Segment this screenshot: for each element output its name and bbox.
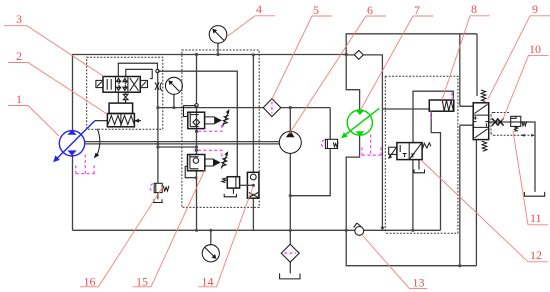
charge pump triangle	[286, 131, 295, 137]
pump P1 outlet triangle up	[67, 130, 76, 135]
valve 15 adjust arrow	[221, 154, 227, 169]
ring node pilot junction	[156, 69, 159, 72]
wire shuttle column	[252, 55, 254, 230]
motor variable arrow	[345, 108, 379, 135]
node T-line valve12	[411, 229, 414, 232]
filter 5 magenta element	[271, 102, 273, 114]
svg-text:3: 3	[16, 12, 22, 26]
valve 12 body	[397, 143, 422, 160]
charge pump 6	[279, 131, 301, 153]
servo spring box 2	[107, 114, 134, 127]
valve 8 spring	[442, 100, 454, 111]
wire valve12 tank stub	[418, 160, 420, 170]
gauge 2	[165, 77, 182, 94]
wire charge pump bottom port	[289, 153, 291, 244]
wire x158 column	[157, 73, 159, 199]
test point W x158	[154, 183, 162, 192]
motor 7 variable motor (green)	[347, 110, 372, 135]
swash link line	[95, 120, 141, 122]
wire valve8 bottom to valve12 right line	[431, 112, 440, 230]
valve 8 pilot box	[429, 100, 454, 111]
orifice under valve 3	[118, 92, 125, 103]
tank under test point	[153, 199, 163, 202]
wire motor return to bottom edge	[346, 230, 476, 265]
node on A-line at x196	[195, 53, 198, 56]
swash link arrowhead	[134, 119, 139, 123]
valve 3 right section X	[130, 78, 139, 91]
wire link y147	[158, 146, 197, 148]
drive shaft double line	[84, 142, 279, 144]
coupling dashed enclosure	[491, 113, 533, 136]
wire pilot line y71	[158, 71, 238, 177]
valve 12 spring right	[423, 143, 431, 149]
node shaft crossing	[156, 142, 159, 145]
wire pump bottom to tank line	[72, 155, 74, 230]
svg-text:10: 10	[529, 42, 541, 56]
node T-line filter	[289, 229, 292, 232]
check valve diamond on A-line	[354, 50, 363, 59]
magenta drain of pump P1	[76, 155, 94, 174]
wire valve10 left ports column	[460, 34, 473, 266]
shaft rotation arrow	[97, 129, 100, 156]
node shuttle column top	[252, 53, 255, 56]
dashed box 3 motor valve unit	[385, 76, 458, 233]
svg-text:8: 8	[471, 2, 477, 16]
valve 3 left section bars	[107, 79, 111, 90]
valve 16 flow triangle	[214, 116, 222, 124]
coupling drain arrowheads	[521, 134, 525, 137]
dashed box 2 valve block	[182, 50, 259, 207]
valve 16 drain node	[195, 130, 198, 133]
node A-line motor branch	[345, 53, 348, 56]
valve 12 solenoid box left	[389, 147, 397, 154]
wire valve10 bottom to edge	[475, 140, 477, 266]
wire gauge4 stem	[217, 43, 219, 54]
svg-text:4: 4	[256, 2, 262, 16]
node gauge2 main line	[172, 106, 175, 109]
node link y147 right	[195, 145, 198, 148]
valve 16 adjust arrow	[223, 112, 229, 127]
valve 3 pilot loop outer	[118, 63, 157, 76]
valve 16 magenta drain	[198, 125, 222, 131]
shuttle check box	[247, 172, 259, 198]
svg-text:5: 5	[313, 3, 319, 17]
node main line x158	[156, 106, 159, 109]
wire pump A-line up	[73, 55, 347, 131]
shuttle link wire	[240, 184, 254, 186]
wire charge loop right	[290, 108, 330, 196]
node T-line motor return	[345, 229, 348, 232]
shuttle X seat	[249, 193, 258, 198]
dashed box 1 servo control unit	[87, 57, 163, 129]
test point W box right	[511, 116, 521, 126]
wire valve12 bottom to tank line	[412, 160, 414, 231]
tank 11	[524, 192, 544, 196]
node charge loop bottom	[289, 194, 292, 197]
tank under filter 13	[280, 273, 300, 279]
filter 13 diamond	[281, 244, 299, 262]
check valve 13 circle on T-line	[355, 227, 364, 236]
wire top A-line branch	[346, 34, 477, 55]
test point W magenta arc	[321, 140, 324, 148]
valve 16 left bracket	[184, 106, 197, 117]
valve 15 magenta drain	[198, 150, 222, 158]
valve 3 pilot directional valve body	[103, 77, 140, 93]
valve 3 right end cap	[140, 80, 147, 87]
wire valve spine x196	[196, 55, 198, 231]
wire coupling line to tank11	[489, 122, 535, 192]
servo spring zigzag	[108, 116, 134, 125]
wire gauge2 stem	[173, 94, 175, 107]
valve 16 cartridge body	[188, 112, 205, 128]
valve 15 ball	[193, 158, 198, 163]
wire tank return line T	[73, 229, 441, 231]
pump P1 inlet triangle down	[67, 150, 76, 155]
shuttle ball	[250, 174, 256, 180]
valve 16 spring	[223, 115, 229, 124]
svg-text:7: 7	[414, 3, 420, 17]
filter 13 magenta element	[284, 252, 296, 254]
node bottom edge valve10	[458, 264, 461, 267]
svg-text:12: 12	[530, 248, 542, 262]
pump P1 variable axial piston pump (blue)	[59, 131, 84, 156]
valve 12 left section internals	[400, 145, 406, 157]
valve 3 left end cap	[96, 80, 103, 87]
wire valve12 top	[412, 134, 414, 142]
valve 16 diamond poppet	[193, 119, 200, 126]
motor inlet triangle	[356, 110, 365, 115]
svg-text:6: 6	[367, 3, 373, 17]
valve 15 outlet channel	[205, 159, 214, 166]
test point W magenta arc 2	[150, 184, 153, 192]
valve 10 top spring	[481, 90, 486, 102]
motor magenta drain	[362, 134, 381, 155]
gauge 4	[209, 26, 227, 44]
wire charge main line	[158, 107, 330, 109]
valve 10 top section diagonal	[474, 104, 487, 113]
wire A-line to check diamond and right block	[346, 55, 429, 228]
valve 3 pilot loop inner	[126, 69, 152, 78]
valve 10 middle section marks	[473, 116, 489, 126]
test point W near motor	[325, 139, 337, 148]
svg-text:1: 1	[16, 92, 22, 106]
arrowhead of dashed drain into T-line	[380, 227, 384, 230]
svg-text:9: 9	[532, 2, 538, 16]
valve 10 bottom section diagonal	[474, 129, 487, 138]
valve 10 bottom spring	[482, 141, 487, 151]
valve 8 magenta ticks	[431, 93, 452, 120]
valve 15 spring	[221, 158, 227, 167]
svg-text:11: 11	[530, 211, 542, 225]
node gauge4	[216, 53, 219, 56]
node T-line x196	[195, 229, 198, 232]
valve 14 solenoid box	[227, 177, 239, 188]
quick coupling X symbol	[492, 118, 504, 125]
valve 16 ring top	[195, 104, 198, 107]
servo piston box	[109, 103, 133, 113]
wire valve10 pilot feed	[476, 34, 478, 96]
node shuttle link	[252, 184, 255, 187]
motor outlet triangle	[356, 131, 365, 136]
wire motor bottom return	[346, 135, 359, 230]
valve 16 outlet channel	[205, 117, 215, 124]
valve 15 cartridge body	[188, 155, 205, 171]
wire valve8 loop	[413, 91, 453, 134]
valve 15 left bracket	[185, 166, 196, 177]
valve 14 spring W left	[222, 178, 227, 183]
valve 15 drain node	[195, 149, 198, 152]
test point W right spring	[514, 126, 518, 131]
pump P1 variable displacement arrow	[57, 121, 95, 159]
valve 12 right section diagonal	[410, 143, 422, 159]
wire filter13 to tank	[289, 262, 291, 273]
gauge 14	[202, 245, 219, 262]
node charge pump top	[289, 106, 292, 109]
valve 12 tank symbol	[414, 169, 425, 172]
valve 15 flow triangle	[213, 159, 221, 167]
valve 10 main directional valve body	[473, 103, 489, 140]
wire motor top feed	[346, 55, 359, 111]
svg-text:2: 2	[16, 49, 22, 63]
filter 5 diamond	[263, 99, 281, 117]
valve 3 middle section symbols	[116, 78, 127, 90]
test coupling X( symbol	[155, 82, 159, 90]
valve 14 tank	[224, 188, 236, 197]
svg-text:13: 13	[413, 276, 425, 290]
wire gauge14 stem	[210, 230, 212, 244]
wire charge pump top port	[289, 108, 291, 132]
node T-line gauge14	[209, 229, 212, 232]
node link y147 left	[156, 145, 159, 148]
